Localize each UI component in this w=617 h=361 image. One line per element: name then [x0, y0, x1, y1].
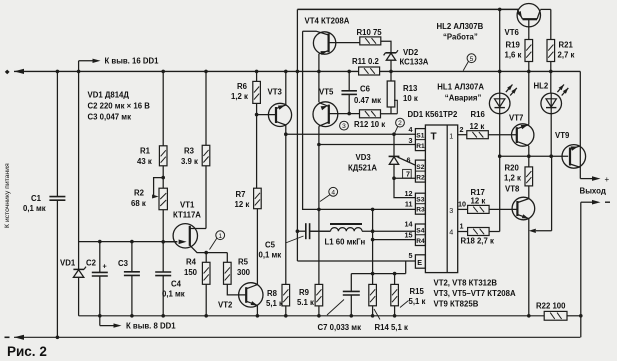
svg-text:12 к: 12 к: [471, 196, 486, 205]
transistor VT5: [313, 102, 338, 127]
svg-text:2,7 к: 2,7 к: [558, 51, 575, 60]
svg-text:R21: R21: [559, 41, 574, 50]
LED HL2: [541, 93, 562, 114]
svg-text:2: 2: [460, 125, 464, 134]
wire to pin8 DD1 with arrow: [99, 316, 101, 326]
svg-text:0,1 мк: 0,1 мк: [259, 251, 282, 260]
svg-text:E: E: [417, 258, 422, 267]
svg-text:VD3: VD3: [356, 153, 372, 162]
svg-text:3: 3: [409, 136, 413, 145]
svg-text:R14 5,1 к: R14 5,1 к: [375, 323, 408, 332]
svg-text:HL2 АЛ307В: HL2 АЛ307В: [437, 22, 484, 31]
zener diode VD2 KS133A: [385, 52, 396, 54]
svg-text:R2: R2: [134, 189, 145, 198]
svg-text:R19: R19: [506, 41, 521, 50]
svg-text:43 к: 43 к: [137, 157, 152, 166]
svg-text:14: 14: [405, 220, 413, 229]
capacitor C1: [56, 71, 58, 196]
resistor R21: [550, 9, 552, 39]
svg-text:150: 150: [184, 268, 198, 277]
svg-text:1,6 к: 1,6 к: [505, 51, 522, 60]
svg-text:“Работа”: “Работа”: [443, 33, 478, 42]
capacitor C2 electrolytic: [99, 242, 101, 273]
svg-text:C2 220 мк × 16 В: C2 220 мк × 16 В: [88, 102, 151, 111]
potentiometer R2: [159, 188, 167, 210]
svg-text:VD1 Д814Д: VD1 Д814Д: [88, 91, 130, 100]
svg-text:15: 15: [405, 230, 413, 239]
svg-text:C4: C4: [171, 280, 182, 289]
svg-text:C2: C2: [86, 259, 97, 268]
svg-text:HL1 АЛ307А: HL1 АЛ307А: [437, 83, 484, 92]
svg-text:68 к: 68 к: [131, 199, 146, 208]
node + supply bus: [14, 70, 359, 72]
svg-text:VT8: VT8: [505, 185, 520, 194]
svg-text:7: 7: [406, 169, 410, 178]
svg-text:0,1 мк: 0,1 мк: [23, 204, 46, 213]
wire out1 pin2: [458, 134, 467, 136]
svg-text:6: 6: [407, 156, 411, 165]
transistor VT9 KT825B: [562, 145, 586, 169]
svg-text:VT5: VT5: [319, 88, 334, 97]
transistor VT2: [239, 283, 263, 307]
svg-text:300: 300: [237, 268, 251, 277]
transistor VT8: [528, 186, 530, 199]
svg-text:3.9 к: 3.9 к: [181, 157, 198, 166]
svg-text:1: 1: [218, 233, 222, 240]
svg-text:5.1 к: 5.1 к: [297, 298, 314, 307]
svg-text:R8: R8: [267, 289, 278, 298]
transistor VT7: [512, 124, 534, 146]
svg-text:VT2: VT2: [218, 301, 233, 310]
wire VT5 base to R12: [329, 113, 360, 115]
svg-text:R4: R4: [416, 238, 425, 245]
wire top supply rail: [297, 8, 518, 10]
svg-text:0.47 мк: 0.47 мк: [354, 96, 381, 105]
svg-text:5,1 к: 5,1 к: [266, 299, 283, 308]
node 4 circled: [329, 187, 338, 196]
svg-text:VD2: VD2: [403, 48, 419, 57]
resistor R6: [256, 71, 258, 81]
svg-text:+: +: [103, 262, 107, 271]
resistor R18: [468, 228, 490, 236]
resistor R13: [390, 71, 392, 81]
node 5 circled: [467, 54, 476, 63]
resistor R14: [369, 284, 377, 305]
svg-text:C3: C3: [118, 259, 129, 268]
resistor R19: [525, 40, 533, 62]
node 1 circled: [216, 231, 225, 240]
resistor R8: [282, 284, 290, 306]
node 3 circled: [340, 121, 349, 130]
svg-text:R2: R2: [416, 175, 425, 182]
svg-text:11: 11: [405, 200, 413, 209]
svg-text:R7: R7: [236, 190, 246, 199]
svg-text:C6: C6: [360, 85, 371, 94]
svg-text:1,2 к: 1,2 к: [231, 92, 248, 101]
wire HL1 vertical: [499, 9, 501, 93]
svg-text:4: 4: [409, 125, 413, 134]
svg-text:R4: R4: [186, 258, 197, 267]
svg-text:КД521А: КД521А: [348, 164, 377, 173]
node 2 circled: [396, 118, 405, 127]
svg-text:4: 4: [449, 228, 453, 237]
resistor R15: [394, 274, 396, 285]
svg-text:C3 0,047 мк: C3 0,047 мк: [88, 113, 132, 122]
svg-text:2: 2: [398, 120, 402, 127]
capacitor C7: [350, 274, 352, 292]
svg-text:5: 5: [409, 251, 413, 260]
svg-text:VT4 КТ208А: VT4 КТ208А: [305, 17, 350, 26]
wire out3 pin10: [458, 208, 468, 210]
capacitor C4: [162, 242, 164, 272]
svg-text:+: +: [605, 175, 610, 184]
svg-text:К источнику питания: К источнику питания: [4, 163, 11, 228]
svg-text:VD1: VD1: [60, 259, 76, 268]
svg-text:1,2 к: 1,2 к: [504, 174, 521, 183]
svg-text:R13: R13: [403, 84, 418, 93]
svg-text:R3: R3: [416, 207, 425, 214]
svg-text:5,1 к: 5,1 к: [409, 297, 426, 306]
resistor R11: [359, 67, 380, 75]
svg-text:R20: R20: [505, 164, 520, 173]
transistor VT6: [517, 4, 540, 27]
svg-text:L1 60 мкГн: L1 60 мкГн: [325, 238, 366, 247]
wire E net vertical: [296, 9, 298, 261]
diode VD3 KD521A: [393, 134, 395, 156]
resistor R17: [468, 205, 490, 213]
wire to pin16 DD1 with arrow: [78, 61, 80, 72]
svg-text:VT7: VT7: [509, 114, 523, 123]
resistor R1: [162, 71, 164, 145]
wire C7 E link: [351, 273, 405, 275]
svg-text:T: T: [431, 132, 437, 143]
svg-text:VT1: VT1: [180, 201, 195, 210]
IC E cell: [415, 255, 425, 268]
capacitor C5: [297, 230, 305, 232]
svg-text:R5: R5: [238, 258, 249, 267]
wire pin7 R2: [394, 177, 415, 179]
svg-text:R1: R1: [416, 143, 425, 150]
svg-text:S4: S4: [416, 228, 424, 235]
resistor R16: [467, 131, 489, 139]
svg-text:КТ117А: КТ117А: [173, 211, 201, 220]
transistor VT3: [257, 114, 276, 116]
svg-text:VT3: VT3: [268, 88, 283, 97]
inductor L1: [310, 230, 331, 232]
svg-text:S3: S3: [416, 197, 424, 204]
wire pin6 diagonal: [398, 157, 416, 165]
svg-text:КС133А: КС133А: [400, 58, 429, 67]
wire + output: [579, 71, 581, 178]
svg-text:К выв. 8 DD1: К выв. 8 DD1: [126, 322, 176, 331]
capacitor C6: [348, 71, 350, 90]
resistor R20: [525, 167, 533, 186]
svg-text:1: 1: [460, 222, 464, 231]
svg-text:R3: R3: [184, 147, 195, 156]
svg-text:R11 0.2: R11 0.2: [352, 57, 380, 66]
svg-text:10 к: 10 к: [403, 94, 418, 103]
wire pin14 S4: [362, 230, 415, 232]
wire pin5 E: [297, 260, 415, 262]
wire pin11 R3: [319, 208, 416, 210]
resistor R3: [205, 71, 207, 145]
transistor VT1 KT117A: [173, 224, 197, 248]
svg-text:VT9: VT9: [555, 131, 570, 140]
wire pin15 R4: [373, 239, 416, 241]
svg-text:12: 12: [405, 189, 413, 198]
resistor R10: [360, 37, 381, 45]
LED HL1 AL307A: [489, 93, 510, 114]
svg-text:R15: R15: [410, 287, 425, 296]
svg-text:R9: R9: [299, 288, 310, 297]
svg-text:4: 4: [331, 189, 335, 196]
resistor R4: [205, 253, 207, 263]
capacitor C3: [131, 242, 133, 272]
svg-text:К выв. 16 DD1: К выв. 16 DD1: [105, 57, 160, 66]
svg-text:HL2: HL2: [534, 82, 549, 91]
wire R14 vertical: [372, 209, 374, 284]
svg-text:Рис. 2: Рис. 2: [7, 344, 47, 359]
svg-text:3: 3: [342, 123, 346, 130]
wire pin3 R1: [319, 144, 416, 146]
svg-text:VT9 КТ825В: VT9 КТ825В: [434, 300, 479, 309]
wire - output: [581, 201, 594, 203]
wire VT8 emitter tie: [529, 229, 536, 233]
wire R10-VD2-R13 vertical: [381, 41, 391, 53]
svg-text:VT2, VT8 КТ312В: VT2, VT8 КТ312В: [434, 279, 498, 288]
svg-text:S2: S2: [416, 164, 424, 171]
resistor R12: [360, 110, 381, 118]
wire pin12 S3: [394, 178, 415, 197]
svg-text:S1: S1: [416, 132, 424, 139]
wire pin4 S1: [286, 133, 416, 135]
svg-text:10: 10: [458, 199, 466, 208]
svg-text:R16: R16: [471, 110, 486, 119]
svg-text:R1: R1: [140, 147, 151, 156]
svg-text:R12 10 к: R12 10 к: [354, 120, 385, 129]
svg-text:12 к: 12 к: [470, 122, 485, 131]
svg-text:R18 2,7 к: R18 2,7 к: [461, 237, 494, 246]
svg-text:R22 100: R22 100: [536, 302, 566, 311]
resistor R22: [544, 311, 567, 320]
svg-text:C5: C5: [265, 241, 276, 250]
zener diode VD1: [78, 71, 80, 269]
svg-text:C7 0,033 мк: C7 0,033 мк: [318, 323, 362, 332]
svg-text:R6: R6: [237, 82, 248, 91]
svg-text:0,1 мк: 0,1 мк: [162, 290, 185, 299]
wire out4 pin1: [458, 231, 468, 233]
svg-text:“Авария”: “Авария”: [445, 94, 482, 103]
svg-text:DD1 К561ТР2: DD1 К561ТР2: [408, 110, 458, 119]
wire VT9 base line: [500, 155, 569, 157]
transistor VT4 KT208A: [313, 32, 335, 54]
svg-text:3: 3: [449, 206, 453, 215]
svg-text:1: 1: [449, 131, 453, 140]
svg-text:VT3, VT5–VT7 КТ208А: VT3, VT5–VT7 КТ208А: [434, 289, 516, 298]
svg-text:R10 75: R10 75: [357, 28, 383, 37]
svg-text:C1: C1: [31, 194, 42, 203]
wire - bottom bus: [14, 336, 580, 338]
svg-text:VT6: VT6: [505, 28, 520, 37]
resistor R5: [226, 253, 228, 263]
resistor R7: [254, 188, 262, 209]
svg-text:5: 5: [470, 56, 474, 63]
svg-text:12 к: 12 к: [235, 200, 250, 209]
svg-text:Выход: Выход: [580, 187, 606, 196]
node ground rail: [79, 315, 545, 317]
resistor R9: [318, 261, 320, 284]
wire upper sub-rail: [79, 241, 177, 243]
